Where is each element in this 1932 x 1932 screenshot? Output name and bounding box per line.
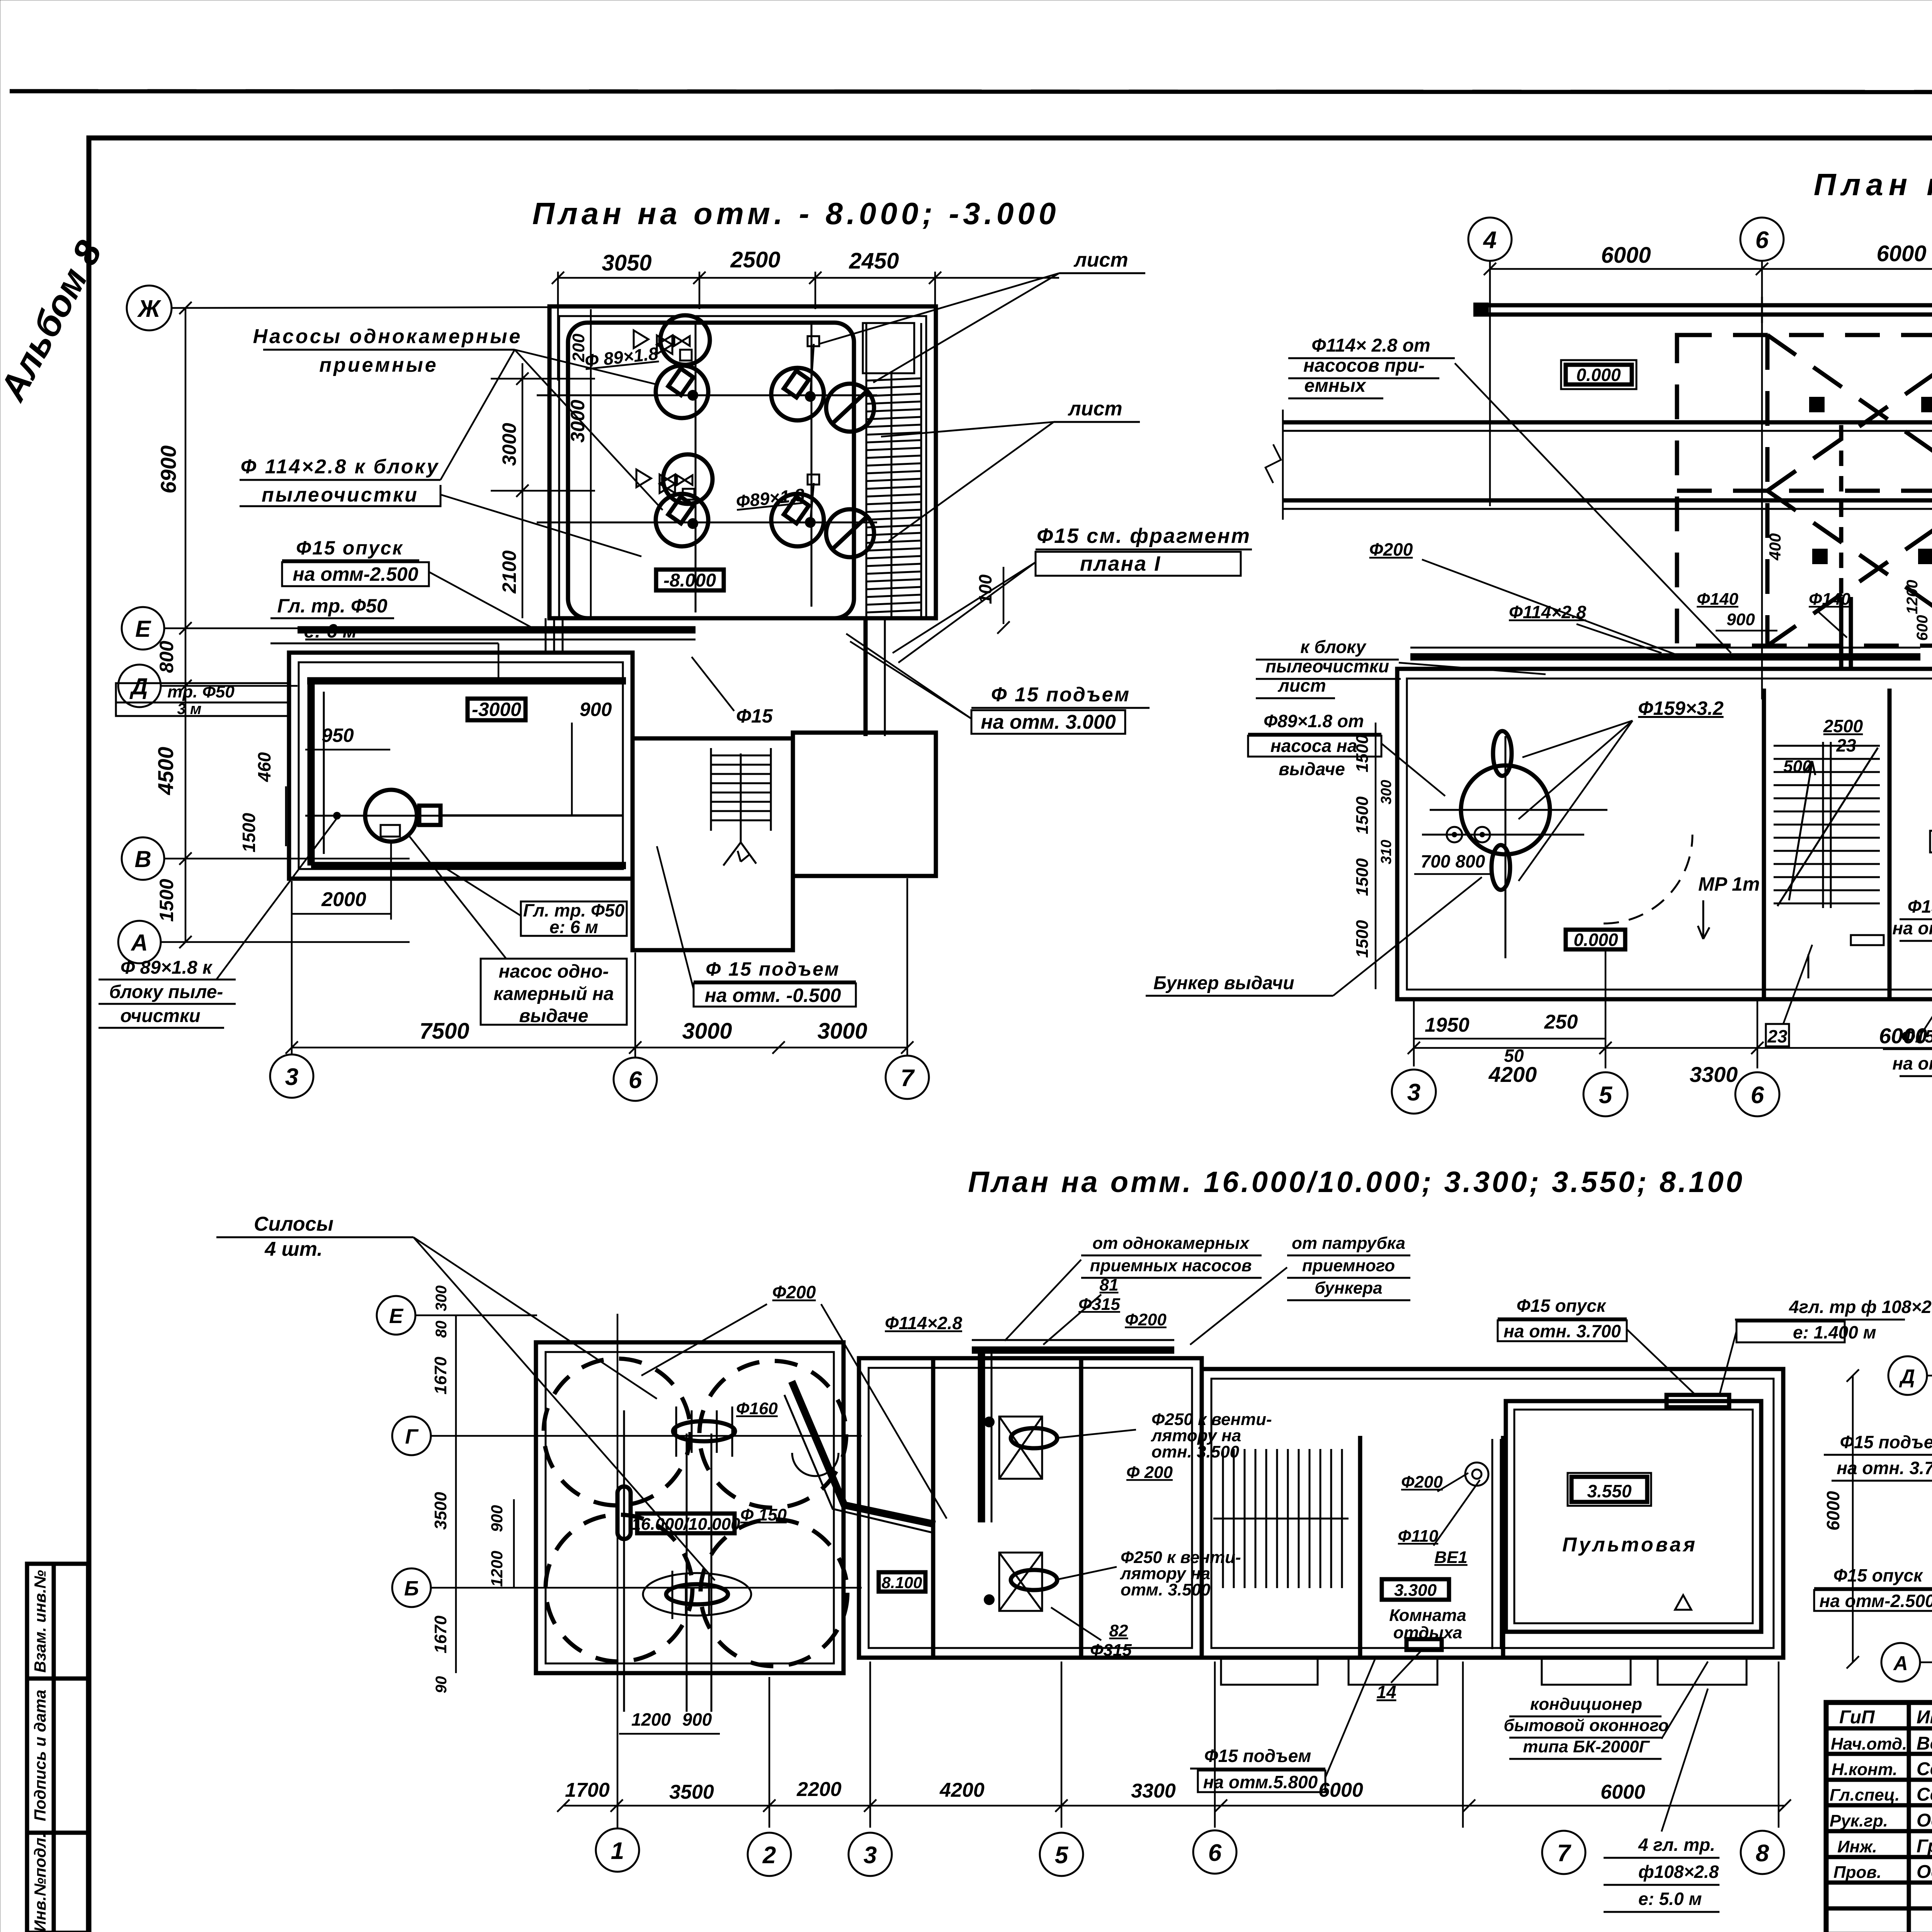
bottom dim chain plan3 (563, 1805, 1785, 1807)
svg-text:1500: 1500 (1353, 920, 1372, 958)
elevation -3000 box (468, 699, 526, 720)
svg-text:Бункер выдачи: Бункер выдачи (1153, 973, 1294, 993)
svg-text:7500: 7500 (419, 1019, 469, 1044)
left dims rotated plan3 (455, 1315, 457, 1673)
grid letter circle А (118, 921, 161, 963)
main pipes between rooms (298, 626, 696, 634)
left room pump (1461, 765, 1550, 854)
svg-text:Ф160: Ф160 (736, 1399, 778, 1418)
svg-text:310: 310 (1378, 840, 1395, 864)
svg-text:6000: 6000 (1879, 1024, 1927, 1048)
svg-text:приемного: приемного (1302, 1256, 1395, 1275)
svg-text:400: 400 (1766, 533, 1784, 561)
svg-text:2: 2 (762, 1842, 776, 1869)
svg-text:6000: 6000 (1876, 241, 1926, 266)
svg-text:300: 300 (1378, 780, 1395, 804)
svg-text:Ф89×1.8: Ф89×1.8 (735, 485, 806, 512)
svg-text:Ф15 опуск: Ф15 опуск (1908, 896, 1932, 917)
svg-text:выдаче: выдаче (519, 1006, 588, 1026)
svg-text:1670: 1670 (431, 1357, 450, 1395)
svg-text:7: 7 (1557, 1840, 1571, 1867)
svg-text:Насосы однокамерные: Насосы однокамерные (253, 325, 522, 348)
svg-text:План на отм. 16.000/10.000; 3.: План на отм. 16.000/10.000; 3.300; 3.550… (968, 1166, 1745, 1199)
svg-text:1200: 1200 (488, 1551, 506, 1587)
svg-text:Ф110: Ф110 (1398, 1527, 1439, 1546)
svg-text:2450: 2450 (849, 248, 899, 274)
upper pump room outer walls (549, 306, 936, 618)
svg-text:Комната: Комната (1389, 1606, 1466, 1625)
svg-text:Волков: Волков (1917, 1733, 1932, 1754)
main building outer walls (1397, 669, 1932, 999)
svg-text:А: А (1893, 1652, 1908, 1675)
svg-text:на отн. 3.700: на отн. 3.700 (1503, 1321, 1621, 1341)
svg-text:3.300: 3.300 (1394, 1581, 1437, 1600)
svg-text:6: 6 (629, 1067, 642, 1094)
svg-text:90: 90 (433, 1676, 450, 1694)
svg-text:Ф140: Ф140 (1809, 590, 1850, 609)
svg-text:Инв.№подл.: Инв.№подл. (31, 1833, 49, 1932)
svg-text:4: 4 (1483, 227, 1497, 253)
pump in lower room (365, 790, 417, 842)
label 23 box (1766, 1024, 1789, 1046)
title block (1826, 1702, 1932, 1932)
svg-text:Ф 150: Ф 150 (740, 1505, 787, 1524)
svg-text:на отм. 3.000: на отм. 3.000 (1892, 1053, 1932, 1073)
svg-text:на отм.5.800: на отм.5.800 (1203, 1772, 1318, 1792)
svg-text:Подпись и дата: Подпись и дата (31, 1690, 49, 1821)
svg-text:16.000/10.000: 16.000/10.000 (631, 1515, 740, 1534)
svg-text:1670: 1670 (431, 1616, 450, 1653)
svg-text:3500: 3500 (431, 1492, 450, 1530)
svg-text:насосов при-: насосов при- (1303, 355, 1425, 376)
railway band (1283, 420, 1932, 425)
svg-text:лист: лист (1067, 398, 1122, 420)
svg-text:700: 700 (1421, 851, 1451, 871)
svg-text:6000: 6000 (1823, 1491, 1843, 1531)
building right part walls (1202, 1369, 1783, 1658)
svg-text:5: 5 (1599, 1082, 1613, 1109)
svg-text:кондиционер: кондиционер (1530, 1695, 1642, 1714)
svg-text:Ф315: Ф315 (1090, 1641, 1132, 1660)
svg-text:Ф114×2.8: Ф114×2.8 (1509, 602, 1586, 622)
svg-text:3 м: 3 м (177, 701, 202, 718)
svg-text:80: 80 (433, 1321, 450, 1338)
svg-text:6000: 6000 (1600, 1781, 1645, 1803)
svg-text:Силосы: Силосы (254, 1213, 333, 1235)
svg-text:Оспнцева: Оспнцева (1917, 1810, 1932, 1831)
svg-text:4500: 4500 (153, 747, 178, 796)
svg-text:1500: 1500 (1353, 796, 1372, 834)
svg-text:e: 1.400 м: e: 1.400 м (1793, 1322, 1876, 1342)
grid letter circle В (122, 837, 164, 880)
svg-text:800: 800 (1456, 851, 1485, 871)
fan units (999, 1417, 1042, 1611)
svg-text:Ф 89×1.8: Ф 89×1.8 (584, 343, 659, 371)
svg-text:выдаче: выдаче (1279, 759, 1345, 779)
svg-text:100: 100 (975, 574, 995, 604)
svg-text:плана I: плана I (1080, 552, 1161, 575)
svg-text:1950: 1950 (1425, 1014, 1469, 1036)
svg-text:Инж.: Инж. (1837, 1837, 1877, 1856)
svg-text:1: 1 (611, 1838, 624, 1864)
svg-text:600: 600 (1914, 615, 1931, 641)
pipe from silos (792, 1381, 935, 1524)
svg-text:3050: 3050 (602, 250, 651, 276)
svg-text:2500: 2500 (1823, 716, 1863, 736)
bottom grid circles plan2 (1392, 1070, 1436, 1114)
left small label gl tr f50 3m (116, 683, 288, 716)
svg-text:Гл.спец.: Гл.спец. (1830, 1786, 1900, 1804)
svg-text:1500: 1500 (239, 813, 259, 852)
svg-text:8.100: 8.100 (881, 1573, 922, 1592)
lower room heating pipes (307, 677, 626, 685)
pump valve circles row1 (660, 315, 710, 365)
bottom grid circles (270, 1054, 313, 1098)
svg-text:Оспнцева: Оспнцева (1917, 1862, 1932, 1882)
0.000 box top (1566, 365, 1632, 384)
pump valve circles row2 (663, 454, 713, 504)
svg-text:0.000: 0.000 (1576, 365, 1621, 385)
pump circles row1 (656, 366, 708, 418)
svg-text:к блоку: к блоку (1300, 637, 1367, 657)
svg-text:Иванова: Иванова (1917, 1707, 1932, 1728)
svg-text:1500: 1500 (1353, 858, 1372, 896)
svg-text:приемные: приемные (319, 354, 438, 376)
svg-text:MP 1m: MP 1m (1698, 873, 1760, 895)
svg-text:Г: Г (405, 1425, 419, 1448)
svg-text:Ф89×1.8 от: Ф89×1.8 от (1264, 711, 1364, 731)
svg-text:Ф200: Ф200 (1125, 1310, 1167, 1329)
stairs hatch band right side (863, 323, 921, 618)
top dim line (1490, 268, 1932, 270)
svg-text:очистки: очистки (120, 1006, 200, 1026)
left margin stamp strip (27, 1564, 88, 1932)
label nasos odnokamerny (481, 959, 627, 1025)
svg-text:Ф15 опуск: Ф15 опуск (1517, 1296, 1607, 1316)
radiator top wall pultovaya (1667, 1395, 1729, 1407)
svg-text:Ф200: Ф200 (1369, 539, 1413, 560)
stairs horizontal flight (1213, 1449, 1349, 1588)
svg-text:Ф140: Ф140 (1697, 590, 1738, 609)
svg-text:Ф15: Ф15 (736, 705, 773, 727)
svg-text:тр. Ф50: тр. Ф50 (167, 682, 235, 701)
leader lines to pumps from label (515, 350, 657, 384)
svg-text:Ф159×3.2: Ф159×3.2 (1638, 697, 1723, 719)
svg-text:Ф 15 подъем: Ф 15 подъем (706, 958, 840, 980)
top pipe (972, 1347, 1174, 1354)
svg-text:на отн. 3.700: на отн. 3.700 (1837, 1458, 1932, 1478)
svg-text:Ф200: Ф200 (1401, 1473, 1443, 1492)
svg-text:3500: 3500 (669, 1781, 714, 1803)
svg-text:типа БК-2000Г: типа БК-2000Г (1523, 1737, 1650, 1756)
svg-text:Ф 15 подъем: Ф 15 подъем (991, 684, 1130, 706)
svg-text:насоса на: насоса на (1270, 736, 1357, 756)
bottom circles plan3 (596, 1828, 639, 1872)
inner pit room rounded (568, 323, 854, 618)
svg-text:приемных насосов: приемных насосов (1090, 1256, 1252, 1275)
svg-text:4 шт.: 4 шт. (264, 1238, 323, 1260)
bottom dim chain plan1 (292, 1047, 907, 1049)
svg-text:800: 800 (156, 641, 177, 673)
svg-text:блоку пыле-: блоку пыле- (109, 982, 223, 1002)
svg-text:300: 300 (433, 1286, 450, 1311)
svg-text:В: В (134, 846, 151, 872)
svg-text:1200: 1200 (1904, 580, 1921, 614)
svg-text:Ф15 подъем: Ф15 подъем (1204, 1746, 1311, 1766)
fan room walls (859, 1358, 1202, 1658)
svg-text:3: 3 (1407, 1079, 1420, 1106)
grid letter circle Д (118, 665, 161, 707)
svg-text:3000: 3000 (567, 400, 588, 442)
svg-text:ГиП: ГиП (1839, 1707, 1875, 1728)
svg-text:Ф315: Ф315 (1078, 1295, 1120, 1314)
svg-text:от патрубка: от патрубка (1292, 1234, 1405, 1253)
svg-text:4200: 4200 (939, 1779, 985, 1801)
svg-text:План на отм. - 8.000; -3.000: План на отм. - 8.000; -3.000 (532, 196, 1060, 231)
svg-text:3000: 3000 (682, 1019, 732, 1044)
svg-text:Ф 200: Ф 200 (1126, 1463, 1173, 1482)
svg-text:Ф15 см. фрагмент: Ф15 см. фрагмент (1037, 524, 1251, 548)
grid circle D left (1888, 1356, 1927, 1395)
svg-text:Пультовая: Пультовая (1562, 1534, 1697, 1556)
svg-text:3300: 3300 (1690, 1062, 1738, 1087)
svg-text:Ф15 опуск: Ф15 опуск (1833, 1565, 1923, 1585)
grid letter circles left (377, 1296, 415, 1335)
grid verticals plan3 (617, 1314, 619, 1828)
svg-text:ф108×2.8: ф108×2.8 (1638, 1862, 1719, 1882)
svg-text:Сергеев: Сергеев (1917, 1759, 1932, 1779)
svg-text:План на отм. 0.000: План на отм. 0.000 (1814, 167, 1932, 202)
svg-text:23: 23 (1767, 1026, 1787, 1046)
pultovaya room (1506, 1401, 1761, 1632)
plan1 top dimension line (558, 277, 1059, 279)
svg-text:0.000: 0.000 (1573, 930, 1618, 950)
svg-text:4гл. тр ф 108×2.8: 4гл. тр ф 108×2.8 (1789, 1297, 1932, 1317)
svg-text:2100: 2100 (498, 550, 520, 594)
svg-text:отм. 3.500: отм. 3.500 (1121, 1580, 1211, 1599)
svg-text:2500: 2500 (730, 247, 780, 272)
svg-text:460: 460 (254, 752, 274, 782)
svg-text:Альбом 8: Альбом 8 (0, 234, 110, 408)
svg-text:3000: 3000 (817, 1019, 867, 1044)
svg-text:3: 3 (864, 1842, 877, 1869)
svg-text:Ф15 подъем: Ф15 подъем (1840, 1432, 1932, 1452)
svg-text:200: 200 (569, 333, 588, 362)
bottom radiators and blocks (1851, 935, 1884, 945)
svg-text:Нач.отд.: Нач.отд. (1831, 1735, 1907, 1753)
svg-text:Ж: Ж (137, 296, 162, 322)
lower-left room walls (289, 653, 633, 879)
svg-text:на отм. 3.000: на отм. 3.000 (981, 711, 1116, 733)
svg-text:Ф 89×1.8 к: Ф 89×1.8 к (121, 957, 213, 978)
svg-text:2200: 2200 (796, 1778, 842, 1801)
svg-text:пылеочистки: пылеочистки (1265, 656, 1389, 676)
stairwell plan2 (1762, 689, 1766, 999)
svg-text:900: 900 (488, 1505, 506, 1532)
top pipes to building (1410, 653, 1920, 661)
bottom foundation blocks (1221, 1658, 1318, 1685)
radiator bottom komnata (1406, 1639, 1442, 1650)
svg-text:камерный на: камерный на (493, 984, 614, 1004)
svg-text:Ф 114×2.8 к блоку: Ф 114×2.8 к блоку (241, 456, 440, 478)
svg-text:1200: 1200 (631, 1709, 671, 1730)
bottom dims plan2 (1414, 1038, 1605, 1040)
svg-text:Н.конт.: Н.конт. (1832, 1760, 1898, 1779)
svg-text:3: 3 (285, 1064, 298, 1090)
left room dims (1375, 723, 1377, 989)
svg-text:Д: Д (1899, 1366, 1915, 1388)
svg-text:ВЕ1: ВЕ1 (1434, 1548, 1468, 1567)
svg-text:e: 5.0 м: e: 5.0 м (1638, 1889, 1702, 1909)
svg-text:6000: 6000 (1318, 1779, 1363, 1801)
svg-text:6: 6 (1755, 227, 1769, 253)
svg-text:на отм. -0.500: на отм. -0.500 (705, 985, 841, 1006)
stair hall lower middle (633, 738, 793, 950)
svg-text:1700: 1700 (565, 1779, 610, 1801)
svg-text:900: 900 (682, 1709, 712, 1730)
svg-text:950: 950 (321, 724, 354, 746)
svg-text:4200: 4200 (1488, 1062, 1537, 1087)
silos block (536, 1342, 844, 1673)
svg-text:3.550: 3.550 (1587, 1481, 1632, 1501)
silo connection fittings (673, 1421, 735, 1441)
svg-text:Взам. инв.№: Взам. инв.№ (31, 1570, 49, 1673)
svg-text:23: 23 (1836, 735, 1856, 755)
top grid circles (1468, 218, 1512, 261)
svg-text:-8.000: -8.000 (663, 570, 716, 591)
svg-text:900: 900 (580, 699, 612, 720)
svg-text:А: А (130, 930, 148, 956)
svg-text:6900: 6900 (156, 446, 180, 494)
svg-text:6: 6 (1208, 1840, 1222, 1866)
svg-text:Грибанова: Грибанова (1917, 1836, 1932, 1857)
bunker dashed outline (1677, 335, 1932, 646)
grid letter circle Е (122, 607, 164, 650)
svg-text:7: 7 (901, 1065, 915, 1092)
svg-text:пылеочистки: пылеочистки (262, 484, 418, 506)
svg-text:на отм. 0.150: на отм. 0.150 (1892, 918, 1932, 938)
svg-text:бытовой оконного: бытовой оконного (1503, 1716, 1668, 1735)
svg-text:250: 250 (1544, 1011, 1578, 1033)
grid letter circle Ж (127, 286, 172, 330)
svg-text:Ф200: Ф200 (772, 1282, 816, 1302)
komnata room (1501, 1436, 1505, 1658)
svg-text:от однокамерных: от однокамерных (1092, 1234, 1250, 1253)
svg-text:500: 500 (1783, 757, 1812, 776)
svg-text:на отм-2.500: на отм-2.500 (293, 563, 418, 585)
svg-text:Е: Е (135, 616, 151, 642)
svg-text:82: 82 (1109, 1621, 1128, 1640)
svg-text:Рук.гр.: Рук.гр. (1830, 1811, 1888, 1830)
svg-text:насос одно-: насос одно- (498, 961, 609, 982)
8.100 box (879, 1572, 925, 1592)
grid circle A left (1881, 1643, 1920, 1682)
left dimension chain (185, 308, 187, 942)
svg-text:Гл. тр. Ф50: Гл. тр. Ф50 (277, 595, 387, 617)
svg-text:1500: 1500 (156, 879, 177, 922)
svg-text:лист: лист (1073, 249, 1128, 271)
svg-text:2000: 2000 (321, 888, 366, 911)
svg-text:бункера: бункера (1315, 1279, 1382, 1298)
svg-text:-3000: -3000 (472, 699, 521, 720)
svg-text:емных: емных (1304, 376, 1367, 396)
svg-text:лист: лист (1277, 675, 1326, 696)
svg-text:900: 900 (1726, 610, 1755, 629)
svg-text:Ф15 опуск: Ф15 опуск (296, 537, 403, 559)
svg-text:Ф114× 2.8 от: Ф114× 2.8 от (1311, 335, 1430, 356)
elevation box 16.000/10.000 (637, 1514, 735, 1533)
elevation box -8.000 (656, 570, 724, 590)
svg-text:отн. 3.500: отн. 3.500 (1151, 1442, 1240, 1461)
svg-text:5: 5 (1055, 1842, 1069, 1869)
crane beam (1473, 303, 1932, 308)
sheet top rule (10, 91, 1932, 92)
svg-text:6000: 6000 (1601, 243, 1651, 268)
svg-text:Сергеев: Сергеев (1917, 1784, 1932, 1805)
pump circles row2 (656, 494, 708, 546)
svg-text:e: 6 м: e: 6 м (549, 917, 598, 937)
right lower room (793, 733, 936, 876)
svg-text:3300: 3300 (1131, 1780, 1176, 1802)
svg-text:на отм-2.500: на отм-2.500 (1820, 1591, 1932, 1611)
svg-text:Пров.: Пров. (1833, 1863, 1881, 1882)
pump row pipes (695, 321, 697, 612)
svg-text:8: 8 (1756, 1840, 1769, 1867)
inner dim chains (590, 309, 592, 618)
svg-text:Б: Б (404, 1577, 419, 1600)
svg-text:Е: Е (389, 1304, 404, 1328)
svg-text:14: 14 (1376, 1682, 1396, 1702)
label gl tr f50 e6m bottom (521, 901, 627, 936)
svg-text:4 гл. тр.: 4 гл. тр. (1638, 1835, 1715, 1855)
svg-text:6: 6 (1751, 1082, 1764, 1109)
svg-text:Ф114×2.8: Ф114×2.8 (885, 1313, 962, 1333)
svg-text:3000: 3000 (498, 423, 520, 466)
svg-text:Д: Д (129, 673, 148, 699)
